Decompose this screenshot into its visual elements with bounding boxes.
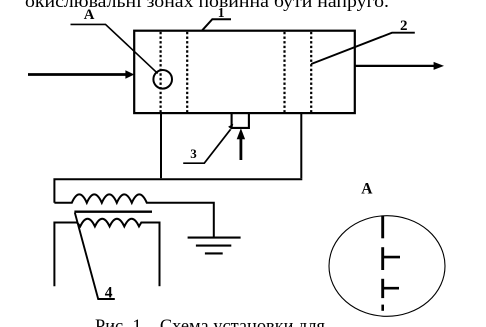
burner port 3 (small box) — [232, 113, 249, 128]
right electrode wire — [300, 114, 302, 178]
svg-text:А: А — [361, 180, 373, 197]
detail view circle — [329, 216, 445, 317]
leader line A — [71, 24, 158, 73]
leader 3 arrowhead — [228, 124, 233, 130]
zone boundary dotted line d — [310, 32, 312, 112]
zone boundary dotted line c — [283, 32, 285, 112]
svg-text:Рис. 1 – Схема установки для: Рис. 1 – Схема установки для — [95, 316, 325, 327]
leader line 1 — [202, 19, 231, 30]
detail circle A on electrode zone — [153, 70, 172, 89]
outlet arrow — [355, 65, 435, 67]
svg-text:3: 3 — [190, 146, 197, 161]
svg-text:1: 1 — [218, 5, 225, 20]
inlet arrow — [28, 73, 127, 76]
electrode tick 1 — [383, 256, 400, 259]
ground — [188, 237, 241, 239]
secondary coil (bottom winding) — [54, 219, 159, 227]
left electrode wire — [160, 114, 162, 178]
svg-text:окислювальні зонах повинна бут: окислювальні зонах повинна бути напруго. — [25, 0, 389, 11]
primary coil (top winding) — [54, 194, 213, 236]
leader line 3 — [183, 129, 230, 163]
electrode segment 2 — [381, 247, 384, 270]
leader line 2 — [311, 33, 415, 64]
electrode segment 3 — [381, 279, 384, 298]
electrode segment 1 — [381, 216, 384, 239]
bus wire — [54, 179, 302, 203]
zone boundary dotted line b — [186, 32, 188, 112]
secondary frame left — [53, 222, 55, 287]
electrode tick 2 — [383, 287, 399, 290]
electrode segment 4 — [381, 305, 384, 311]
transformer core bar — [74, 211, 152, 213]
burner feed arrow (up) — [239, 139, 242, 161]
secondary frame right — [159, 222, 161, 287]
leader line 4 — [75, 213, 115, 300]
chamber 1 (furnace body) — [134, 31, 355, 113]
zone boundary dotted line a — [160, 32, 162, 112]
svg-text:А: А — [84, 7, 95, 23]
